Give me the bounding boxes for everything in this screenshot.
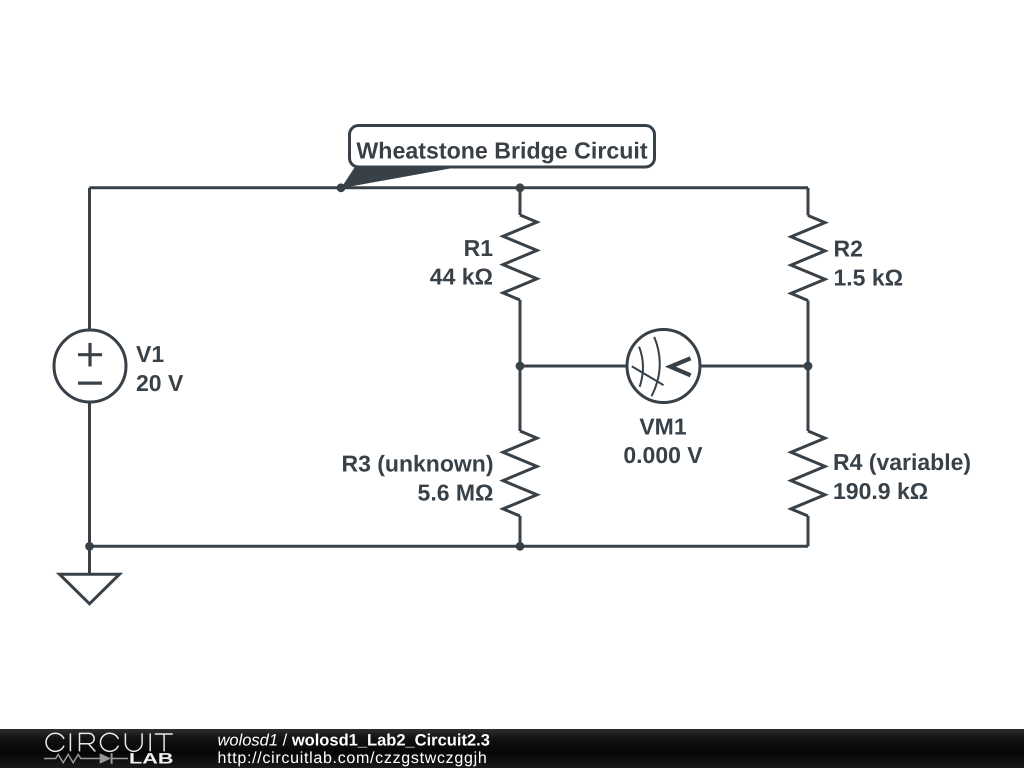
- wire R4 bottom lead: [807, 516, 810, 546]
- wire top-left horizontal (V1 top to node A): [90, 186, 342, 189]
- V1 minus symbol: [78, 382, 102, 385]
- annotation callout box: [350, 126, 655, 168]
- svg-text:R4 (variable): R4 (variable): [833, 449, 971, 475]
- svg-text:5.6 MΩ: 5.6 MΩ: [418, 479, 494, 505]
- svg-text:1.5 kΩ: 1.5 kΩ: [834, 264, 904, 290]
- voltage source V1 circle: [54, 330, 126, 402]
- wire R3 bottom lead (R3 to node D): [519, 516, 522, 546]
- svg-text:Wheatstone Bridge Circuit: Wheatstone Bridge Circuit: [356, 138, 647, 164]
- svg-text:LAB: LAB: [129, 751, 174, 768]
- wire R4 top lead (node E down to R4): [807, 366, 810, 431]
- voltmeter VM1 circle: [627, 330, 700, 403]
- svg-text:R1: R1: [464, 235, 494, 261]
- resistor R4: [791, 431, 825, 516]
- wire R2 top lead: [807, 188, 810, 216]
- resistor R1: [503, 215, 537, 300]
- wire bottom-left horizontal (ground node to node D): [90, 545, 521, 548]
- svg-text:V1: V1: [136, 341, 164, 367]
- svg-text:20 V: 20 V: [136, 370, 184, 396]
- junction node A (callout anchor): [337, 183, 346, 192]
- svg-text:wolosd1 / wolosd1_Lab2_Circuit: wolosd1 / wolosd1_Lab2_Circuit2.3: [218, 732, 490, 750]
- wire top-middle horizontal (node A to node B): [341, 186, 520, 189]
- svg-text:190.9 kΩ: 190.9 kΩ: [833, 478, 928, 504]
- svg-text:http://circuitlab.com/czzgstwc: http://circuitlab.com/czzgstwczggjh: [218, 750, 488, 767]
- svg-text:R2: R2: [834, 236, 863, 262]
- wire R2 bottom lead (R2 to node E): [807, 301, 810, 367]
- junction node E (right bridge midpoint): [804, 362, 813, 371]
- voltmeter VM1 meter scale arcs: [639, 337, 660, 396]
- junction node B (top of bridge): [516, 183, 525, 192]
- annotation callout tail: [341, 166, 461, 188]
- svg-text:R3 (unknown): R3 (unknown): [341, 451, 493, 477]
- ground: [60, 546, 120, 604]
- footer logo resistor-diode art: [44, 753, 128, 764]
- voltmeter VM1 needle: [632, 366, 664, 385]
- wire R3 top lead (node C down to R3): [519, 366, 522, 431]
- wire bottom-right horizontal (node D to R4 bottom corner): [520, 545, 808, 548]
- voltmeter VM1 V glyph (rotated V): [670, 358, 690, 375]
- svg-text:0.000 V: 0.000 V: [623, 442, 703, 468]
- resistor R3: [503, 431, 537, 516]
- junction node D (bottom of bridge): [516, 542, 525, 551]
- wire top-right horizontal (node B to R2 top corner): [520, 186, 808, 189]
- resistor R2: [791, 216, 825, 301]
- footer bar: [0, 729, 1024, 768]
- junction ground node: [85, 542, 94, 551]
- junction node C (left bridge midpoint): [516, 362, 525, 371]
- wire R1 top lead (node B down to R1): [519, 188, 522, 215]
- wire R1 bottom lead (R1 to node C): [519, 300, 522, 366]
- wire voltmeter right lead (VM1 to node E): [700, 365, 808, 368]
- V1 plus symbol: [78, 343, 102, 367]
- wire voltmeter left lead (node C to VM1): [520, 365, 628, 368]
- svg-text:VM1: VM1: [639, 414, 687, 440]
- footer CircuitLab logo CIRCUIT wordmark: [46, 733, 173, 751]
- wire left vertical upper (top rail to V1 + terminal): [88, 188, 91, 331]
- wire left vertical lower (V1 - terminal to bottom rail): [88, 402, 91, 547]
- svg-text:44 kΩ: 44 kΩ: [430, 264, 493, 290]
